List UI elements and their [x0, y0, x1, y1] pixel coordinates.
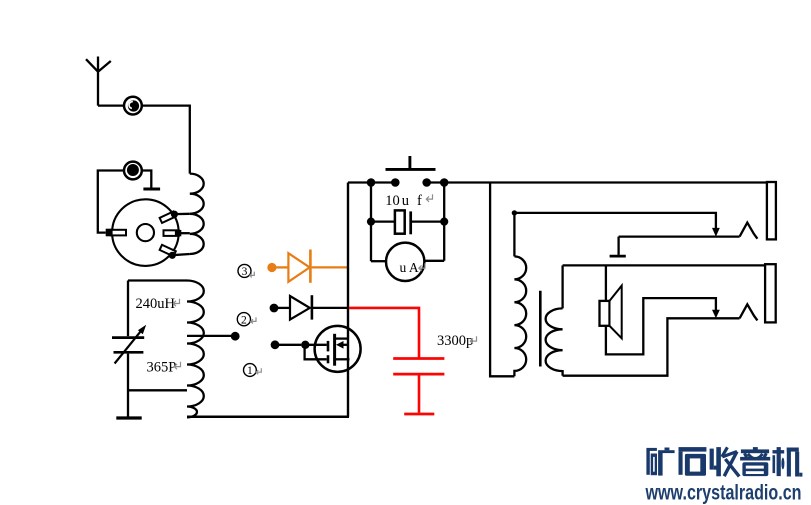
- speaker SP bottom lead: [606, 298, 716, 354]
- node primary top corner dot: [512, 210, 517, 215]
- wire post J1 to coil L1 top: [142, 106, 190, 174]
- node label 2 (circled): [237, 313, 250, 327]
- jack K2 plug body: [765, 264, 776, 322]
- node label 3 (circled): [238, 264, 251, 278]
- wire secondary bottom to jack K2 tip: [563, 318, 740, 375]
- transistor Q1 (dual-gate MOSFET): [305, 326, 361, 372]
- wire jack K1 tip line: [619, 235, 740, 237]
- wire meter branch left: [370, 183, 372, 262]
- wire switch right contact to L1 tap: [179, 232, 190, 234]
- wire post J2 to ground: [142, 171, 151, 189]
- svg-text:240uH: 240uH: [136, 296, 176, 312]
- wire transformer primary branch: [490, 183, 514, 377]
- antenna: [86, 57, 111, 106]
- svg-text:365P: 365P: [147, 359, 177, 375]
- arrow contact (K2): [712, 310, 720, 319]
- svg-text:10: 10: [385, 193, 400, 209]
- capacitor C2 10uF: [367, 210, 448, 234]
- wire switch upper contact to L1 tap: [174, 213, 190, 216]
- capacitor C3 3300p (red): [349, 308, 444, 414]
- rotary switch lower-right contact: [160, 245, 176, 259]
- node gate junction dot: [301, 341, 309, 349]
- transformer T1 secondary winding: [546, 265, 563, 375]
- wire left branch lower (C1 to ground): [127, 354, 129, 417]
- antenna coupling coil L1: [190, 174, 204, 254]
- ground symbol (at J2): [143, 188, 160, 191]
- wire bottom rail (coil bottom to source line): [187, 416, 349, 419]
- wire C1 branch to coil L2 lower tap: [128, 389, 187, 391]
- wire L2 center tap: [187, 335, 232, 337]
- node L2 tap dot: [231, 332, 240, 341]
- rotary switch S1 body: [112, 199, 179, 266]
- wire switch lower contact to L1 bottom: [172, 254, 190, 255]
- wire top rail right segment: [427, 181, 767, 183]
- node position 3 dot: [267, 263, 276, 272]
- jack K1 tip spring: [740, 223, 758, 239]
- wire top rail left segment: [348, 181, 396, 183]
- transformer T1 primary winding: [514, 213, 526, 376]
- binding post J1 (antenna terminal): [124, 97, 142, 115]
- node branch dot right: [440, 178, 449, 187]
- ground symbol (jack K1): [610, 237, 626, 257]
- rotary switch upper-right contact: [160, 211, 178, 223]
- transformer T1 core: [539, 291, 542, 367]
- node label 1 (circled): [244, 364, 257, 378]
- node branch dot left: [367, 178, 376, 187]
- wire primary top to jack K1 switch arm: [514, 213, 716, 232]
- ground bar (bottom of C1 branch): [116, 416, 141, 419]
- svg-text:f: f: [417, 193, 422, 209]
- wire position 1 to gate junction: [278, 344, 302, 346]
- arrow contact (K1): [712, 228, 720, 237]
- diode D2: [278, 295, 348, 319]
- speaker SP: [600, 286, 622, 339]
- pushbutton switch S2: [386, 156, 436, 187]
- node position 1 dot: [271, 340, 280, 349]
- diode D1 (orange): [275, 250, 347, 283]
- svg-text:2: 2: [241, 314, 247, 326]
- meter M1 uA: [371, 243, 444, 281]
- node position 2 dot: [270, 304, 279, 313]
- jack K2 tip spring: [740, 304, 758, 320]
- svg-text:www.crystalradio.cn: www.crystalradio.cn: [645, 481, 802, 504]
- return-arrow marks (gray): [173, 194, 476, 374]
- logo (Chinese wordmark): [646, 447, 802, 477]
- svg-text:1: 1: [247, 365, 253, 377]
- svg-text:3: 3: [242, 266, 248, 278]
- variable capacitor C1 365P: [112, 325, 146, 364]
- rotary switch left contact: [106, 229, 126, 237]
- wire secondary top rail to jack K2: [563, 264, 766, 266]
- svg-text:u A: u A: [400, 260, 419, 275]
- wire antenna to post J1: [98, 104, 124, 106]
- wire tuning top rail: [128, 279, 187, 281]
- wire main vertical (drain rail): [347, 183, 349, 417]
- svg-text:u: u: [402, 193, 409, 209]
- wire meter branch right: [443, 183, 445, 261]
- tuning coil L2 240uH: [187, 281, 204, 418]
- jack K1 plug body: [767, 182, 776, 239]
- wire switch left contact to post J2: [98, 171, 124, 233]
- rotary switch middle-right contact: [164, 230, 182, 236]
- speaker SP top lead: [605, 265, 607, 301]
- wire left branch upper (to C1): [127, 281, 129, 337]
- svg-text:3300p: 3300p: [437, 333, 473, 349]
- binding post J2 (ground terminal): [124, 162, 142, 180]
